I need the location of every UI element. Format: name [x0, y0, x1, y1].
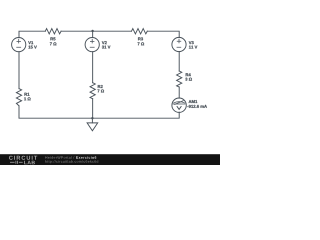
wire R2 to bottom junction	[92, 99, 94, 119]
label 15 V	[28, 46, 36, 49]
wire top-right segment	[147, 31, 179, 37]
label R4	[186, 73, 191, 76]
label 11 V	[189, 46, 197, 49]
label 1 ohm (R1)	[24, 97, 30, 100]
footer line 1: circuit title	[76, 156, 96, 159]
node junction top	[91, 30, 93, 32]
wire R1 to bottom-left corner	[19, 106, 92, 118]
wire top to V2	[92, 31, 94, 37]
voltage source V3	[172, 37, 186, 51]
label AM1	[189, 100, 198, 103]
ground	[87, 118, 98, 131]
voltage source V1	[12, 38, 26, 52]
wire V2 to R2	[92, 52, 94, 83]
label V3	[189, 41, 194, 44]
label V1	[28, 41, 33, 44]
label R1	[24, 93, 29, 96]
resistor R1	[16, 89, 21, 106]
label -912.6 mA	[187, 105, 207, 108]
resistor R2	[90, 83, 95, 99]
label V2	[102, 41, 107, 44]
footer bar	[0, 154, 220, 165]
node junction bottom	[91, 117, 93, 119]
label R2	[98, 85, 103, 88]
label 7 ohm (R5)	[50, 42, 57, 45]
label 7 ohm (R2)	[97, 89, 104, 92]
label R5	[50, 37, 55, 40]
resistor R4	[177, 71, 182, 87]
footer line 2: url	[45, 160, 98, 163]
wire top-middle segment	[61, 30, 131, 32]
resistor R5	[45, 29, 61, 34]
footer line 1: username	[45, 156, 74, 159]
label 7 ohm (R3)	[138, 42, 145, 45]
CircuitLab logo: battery symbol	[10, 161, 23, 164]
label R3	[138, 37, 143, 40]
resistor R3	[132, 29, 148, 34]
wire R4 to AM1	[178, 87, 180, 98]
wire top-left segment	[19, 31, 45, 37]
label 3 ohm (R4)	[185, 78, 192, 81]
ammeter AM1	[172, 98, 186, 112]
wire V1 to R1	[18, 52, 20, 89]
voltage source V2	[85, 38, 99, 52]
label 31 V	[102, 46, 111, 49]
wire bottom-right segment	[92, 112, 179, 118]
wire V3 to R4	[178, 52, 180, 71]
CircuitLab logo: LAB	[24, 161, 35, 165]
CircuitLab logo: CIRCUIT	[9, 156, 37, 160]
